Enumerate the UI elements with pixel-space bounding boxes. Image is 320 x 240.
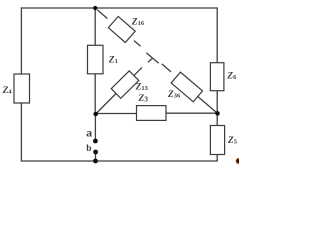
resistor Z13 [111, 71, 139, 98]
wire Z1 branch upper [94, 8, 96, 46]
wire dashed lead at T upper [146, 53, 152, 58]
svg-text:Z16: Z16 [131, 17, 145, 27]
resistor Z5 [210, 126, 224, 155]
wire dashed lead node to Z16 [97, 10, 107, 19]
node bottom junction [93, 159, 98, 164]
resistor Z1 [88, 45, 104, 74]
wire left upper [20, 7, 22, 74]
node terminal a [93, 139, 98, 144]
svg-text:Z13: Z13 [135, 83, 149, 93]
wire right lower [216, 154, 218, 162]
svg-text:Z1: Z1 [108, 56, 118, 66]
wire dashed lead T to Z36 [153, 58, 159, 63]
svg-text:Z5: Z5 [227, 136, 238, 146]
node top junction [93, 6, 97, 10]
node right junction [215, 111, 220, 116]
resistor Z36 [171, 72, 202, 102]
wire right upper [216, 7, 218, 63]
svg-text:Z4: Z4 [2, 86, 13, 96]
wire dashed lead to Z36 [162, 64, 171, 72]
wire left lower [20, 103, 22, 162]
wire top [21, 7, 217, 9]
speck orange dot [0, 0, 1, 1]
wire terminal a [94, 114, 96, 140]
svg-text:Z36: Z36 [167, 90, 181, 100]
resistor Z4 [14, 74, 30, 103]
wire right middle [216, 91, 218, 127]
wire dashed lead Z13 to T [148, 58, 153, 62]
wire Z1 branch lower [94, 74, 96, 115]
svg-text:b: b [86, 144, 91, 154]
wire bottom [21, 160, 218, 162]
wire solid lead Z36 to right junction [198, 96, 218, 113]
wire solid lead junction to Z13 [96, 67, 142, 114]
wire middle horizontal right [166, 112, 218, 114]
node terminal b [93, 150, 98, 155]
wire terminal b [95, 152, 97, 161]
svg-text:Z3: Z3 [137, 94, 148, 104]
svg-text:a: a [86, 126, 92, 140]
resistor Z6 [210, 63, 224, 91]
wire dashed lead Z16 to T [134, 41, 141, 47]
node left junction [93, 112, 98, 117]
svg-text:Z6: Z6 [226, 72, 237, 82]
resistor Z3 [137, 106, 167, 121]
resistor Z16 [108, 16, 135, 42]
wire middle horizontal left [96, 113, 137, 115]
